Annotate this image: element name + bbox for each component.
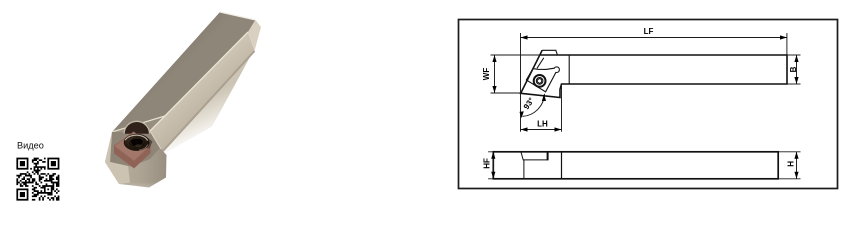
arc arrow top xyxy=(542,94,546,101)
B dimension line xyxy=(796,55,798,84)
screw head xyxy=(124,134,150,151)
tool bar top face xyxy=(112,12,256,132)
side head front edge xyxy=(523,160,525,179)
screw rim highlight top xyxy=(125,135,147,140)
pocket shadow right of screw xyxy=(141,136,153,149)
pocket dark arch xyxy=(124,121,149,134)
WF arrow top xyxy=(492,55,496,62)
B arrow top xyxy=(794,55,798,62)
svg-text:Видео: Видео xyxy=(17,141,44,151)
insert top face xyxy=(114,132,151,161)
side ext top edge xyxy=(488,151,800,153)
pocket rim highlight xyxy=(112,116,165,132)
LH arrow right xyxy=(555,127,562,131)
svg-text:93°: 93° xyxy=(522,96,536,111)
head top face xyxy=(110,131,160,167)
ext line left (LF/LH) xyxy=(520,33,522,132)
tool bar right face xyxy=(150,32,255,151)
side insert thick right edge xyxy=(547,152,549,160)
highlight edge top/right face xyxy=(150,32,248,131)
WF ext top xyxy=(491,54,541,56)
B ext bottom xyxy=(787,83,801,85)
LH ext right xyxy=(561,86,563,132)
screw outer circle xyxy=(534,75,546,87)
side ext bottom edge xyxy=(488,178,800,180)
svg-text:LF: LF xyxy=(644,27,654,36)
pocket rim light xyxy=(124,121,149,134)
side view xyxy=(488,152,800,179)
head left face xyxy=(105,132,130,184)
bottom fade xyxy=(90,182,200,201)
insert outline (top view) xyxy=(526,67,559,92)
top view pocket wall edge xyxy=(537,58,544,69)
LF dimension line xyxy=(521,37,788,39)
head silhouette base (front face color) xyxy=(105,131,167,188)
B ext top xyxy=(787,54,801,56)
QR code xyxy=(16,158,59,201)
insert edge lines xyxy=(114,132,151,168)
head top right edge highlight xyxy=(150,131,161,149)
arc arrow bottom xyxy=(520,111,524,118)
tool bar underside soft shadow xyxy=(163,55,251,153)
WF arrow bottom xyxy=(492,86,496,93)
svg-text:HF: HF xyxy=(482,158,491,169)
screw hexagon xyxy=(538,79,542,84)
WF ext bottom xyxy=(491,92,522,94)
side view shank outline xyxy=(493,152,778,179)
svg-text:WF: WF xyxy=(482,68,491,81)
screw rim highlight bottom right xyxy=(139,145,148,151)
H arrow top xyxy=(794,152,798,159)
svg-text:LH: LH xyxy=(537,120,548,129)
ext line right of LF xyxy=(786,33,788,55)
HF arrow bottom xyxy=(491,172,495,179)
screw hex socket xyxy=(129,137,145,148)
WF dimension line xyxy=(494,55,496,93)
LF arrow left xyxy=(521,35,528,39)
screw inner circle xyxy=(536,78,543,85)
svg-text:B: B xyxy=(789,66,798,72)
top view shank outline xyxy=(521,50,787,97)
side insert left slant xyxy=(521,152,548,160)
HF arrow top xyxy=(491,152,495,159)
LH arrow left xyxy=(521,127,528,131)
top view head-shank junction line xyxy=(568,55,570,84)
H arrow bottom xyxy=(794,172,798,179)
HF dimension line xyxy=(492,152,494,179)
H dimension line xyxy=(796,152,798,179)
pocket floor recess xyxy=(112,116,165,132)
tool bar end face xyxy=(248,20,261,51)
svg-text:H: H xyxy=(787,161,796,167)
drawing frame xyxy=(459,20,838,189)
insert side faces xyxy=(114,146,151,168)
LF arrow right xyxy=(780,35,787,39)
highlight edge top/end face xyxy=(220,12,256,20)
LH dimension line xyxy=(521,129,562,131)
tool bar underside shadow edge xyxy=(163,51,255,151)
93 degree arc xyxy=(523,94,545,117)
B arrow bottom xyxy=(794,77,798,84)
side head junction xyxy=(561,152,563,179)
top view head top protrusion xyxy=(542,50,557,55)
